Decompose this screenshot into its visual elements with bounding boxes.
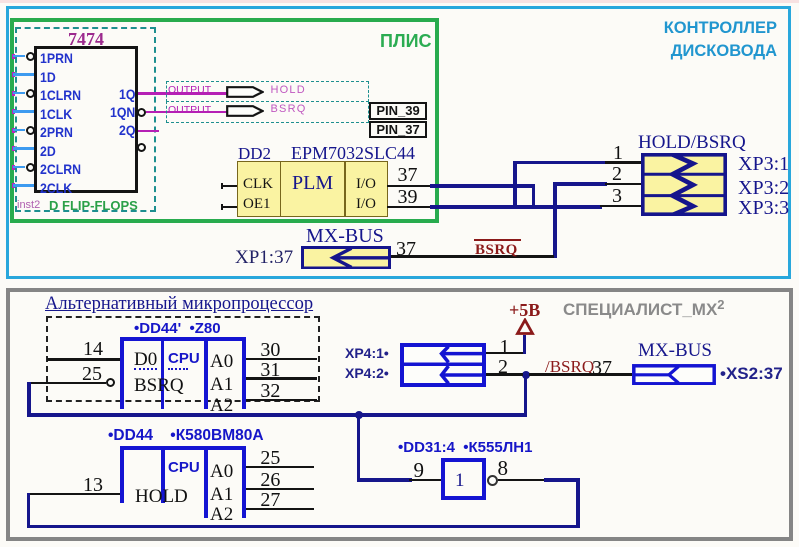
pin 1PRN bubble <box>26 52 35 61</box>
wire 14 <box>47 358 120 361</box>
pin 1CLK label <box>40 107 72 121</box>
label XP3:3 <box>738 198 789 218</box>
label DD44' Z80 <box>134 321 221 336</box>
wire bus y526.5 <box>27 525 580 529</box>
label BSRQ overline <box>474 239 521 241</box>
U Z80 body (open bottom) <box>120 337 246 341</box>
label Альтернативный микропроцессор <box>45 295 313 314</box>
label 7474 <box>68 30 104 48</box>
pin 2CLRN label <box>40 162 81 176</box>
label 39 (PLM out) <box>398 187 418 207</box>
controller box (cyan) <box>6 6 791 279</box>
U K580 body (open bottom) <box>120 446 246 450</box>
pin 1QN <box>110 105 135 119</box>
label MX-BUS (top) <box>306 226 384 246</box>
pin A0 <box>210 462 233 481</box>
label 13 <box>83 475 103 495</box>
pin 1CLK wire <box>12 109 15 114</box>
dff dashed container <box>15 27 156 212</box>
stub CLK <box>222 185 237 188</box>
label BSRQ (red) <box>475 243 518 258</box>
label inst2 <box>17 200 40 211</box>
label 2 <box>612 164 622 184</box>
wire vertical x515 <box>513 161 517 208</box>
wire drop x578 <box>576 478 580 528</box>
wire 2Q stub (magenta) <box>138 130 159 132</box>
label XP1:37 <box>235 248 293 267</box>
power triangle <box>515 318 535 336</box>
pin OE1 <box>243 197 271 212</box>
wire xp4 row1 black <box>486 352 523 355</box>
label 30 <box>260 340 280 360</box>
wire 1QN (magenta) <box>146 111 228 114</box>
wire vertical x533.5 <box>532 184 536 208</box>
label КОНТРОЛЛЕР ДИСКОВОДА <box>560 17 777 63</box>
pin 1CLRN wire <box>12 91 15 96</box>
pin A2 <box>210 505 233 524</box>
wire 32 <box>246 399 318 402</box>
label PLM <box>292 173 333 193</box>
pin I/O 2 <box>356 197 376 212</box>
label 31 <box>260 360 280 380</box>
pin 1PRN wire <box>12 54 15 59</box>
PLM U DD2 body <box>237 161 388 217</box>
label 27 <box>260 490 280 510</box>
wire gate output navy <box>544 478 580 482</box>
pin 1CLRN bubble <box>26 89 35 98</box>
junction dot (358.5,415) <box>355 411 363 419</box>
label DD44 К580ВМ80А <box>108 428 264 444</box>
wire 1Q (magenta) <box>138 92 228 95</box>
label 25 (K580 out) <box>260 448 280 468</box>
wire 37 navy <box>430 184 535 188</box>
pin HOLD <box>135 487 188 506</box>
label 9 <box>414 460 425 481</box>
label /BSRQ <box>545 358 594 375</box>
pin 1PRN label <box>40 51 73 65</box>
pin 2Q <box>119 123 135 137</box>
wire bus y415 <box>27 413 527 417</box>
label D FLIP-FLOPS <box>49 199 138 212</box>
scan edge strip <box>0 0 799 3</box>
wire 26 <box>246 488 315 491</box>
stub OE1 <box>222 206 237 209</box>
bubble 1QN <box>137 108 146 117</box>
wire 25 <box>31 382 106 385</box>
wire gate input black <box>409 479 441 482</box>
left pins group (wires/ticks/bubbles) <box>0 0 799 1</box>
pin 1Q <box>119 87 135 101</box>
pin BSRQ <box>134 376 184 395</box>
label XS2:37 <box>720 365 783 382</box>
label HOLD/BSRQ <box>638 133 746 152</box>
pin A1 <box>210 375 233 394</box>
pin 2PRN wire <box>12 128 15 133</box>
wire gate input navy <box>357 478 412 482</box>
label XP4:2 <box>345 366 389 380</box>
label MX-BUS (bottom) <box>638 341 712 360</box>
label EPM7032SLC44 <box>291 144 415 162</box>
connector XP3 (yellow, 3 arrows) <box>641 153 727 216</box>
OUTPUT symbol row2 (BSRQ) <box>166 101 369 123</box>
label DD31:4 К555ЛН1 <box>398 440 532 455</box>
wire net3 horiz y205.8 <box>600 205 641 208</box>
pin 2D label <box>40 144 56 158</box>
wire vertical x555 (BSRQ riser) <box>553 182 557 258</box>
wire 30 <box>246 358 318 361</box>
dashed box Z80 <box>46 316 320 402</box>
pin 1D wire <box>12 72 15 77</box>
pin box PIN_37 <box>369 121 427 138</box>
connector XS2:37 (left arrow) <box>632 364 716 386</box>
gate output bubble <box>487 475 498 486</box>
pin 1D label <box>40 70 56 84</box>
wire 13 <box>29 493 120 496</box>
pin A0 <box>210 352 233 371</box>
pin 2D wire <box>12 146 15 151</box>
label DD2 <box>238 145 271 162</box>
label 37 (PLM out) <box>398 165 418 185</box>
label 3 <box>612 186 622 206</box>
label 25 (Z80 in) <box>82 364 102 384</box>
wire xp4 row2 black <box>486 373 523 376</box>
pin 2CLRN bubble <box>26 163 35 172</box>
specialist box (gray) <box>6 288 793 541</box>
pin 2CLRN wire <box>12 165 15 170</box>
label 2 (xp4) <box>498 357 508 377</box>
label 26 <box>260 470 280 490</box>
PLIS box (green) <box>10 18 439 223</box>
pin I/O 1 <box>356 177 376 192</box>
bubble BSRQ <box>106 378 115 387</box>
pin 2PRN bubble <box>26 126 35 135</box>
junction dot (525.5,374.5) <box>522 371 530 379</box>
pin box PIN_39 <box>369 102 427 120</box>
label XP3:2 <box>738 178 789 198</box>
label XP3:1 <box>738 154 789 174</box>
pin D0 <box>134 350 157 369</box>
lone bubble <box>137 143 146 152</box>
label 1 (xp4) <box>500 337 510 357</box>
wire riser to +5V <box>523 335 527 354</box>
label ПЛИС <box>380 32 432 50</box>
wire net1 horiz y162 <box>515 161 607 165</box>
wire XP1 to riser (black) <box>391 255 554 258</box>
pin CLK <box>243 177 273 192</box>
label 37 (xs2 wire) <box>592 358 612 378</box>
wire riser left x28.5 (HOLD) <box>27 493 31 529</box>
label 1 <box>613 143 623 163</box>
pin 1CLRN label <box>40 88 81 102</box>
pin A2 <box>210 396 233 415</box>
wire 39 black <box>387 206 432 209</box>
label 8 <box>498 458 509 479</box>
label XP4:1 <box>345 346 389 360</box>
wire to XS2 black <box>529 373 632 376</box>
pin 2CLK label <box>40 181 72 195</box>
OUTPUT symbol row1 (HOLD) <box>166 81 369 102</box>
pin 2PRN label <box>40 125 73 139</box>
wire 39 navy <box>430 205 602 209</box>
wire net2 horiz y183.5 <box>555 182 607 186</box>
label СПЕЦИАЛИСТ_МХ2 <box>563 301 725 318</box>
wire 31 <box>246 377 318 380</box>
gate DD31:4 (inverter) <box>441 458 486 500</box>
connector XP1:37 (yellow, left arrow) <box>301 246 391 270</box>
label 32 <box>260 381 280 401</box>
wire gate output black <box>498 479 547 482</box>
connector XP4 (2 rows, left arrows) <box>400 343 486 387</box>
flip-flop U 7474 body <box>34 46 138 193</box>
label CPU <box>168 460 200 475</box>
power +5В <box>509 301 540 319</box>
wire 37 black <box>387 185 432 188</box>
wire 25 <box>246 466 315 469</box>
label 14 <box>83 339 103 359</box>
pin 2CLK wire <box>12 183 15 188</box>
wire drop x358.5 <box>357 415 361 482</box>
label 37 (mx-bus wire) <box>396 239 416 259</box>
label 1 (gate) <box>455 471 465 490</box>
label CPU <box>168 351 200 366</box>
pin A1 <box>210 485 233 504</box>
wire 27 <box>246 508 315 511</box>
wire riser left x29 (BSRQ) <box>27 382 31 417</box>
wire drop x525.5 <box>524 375 528 417</box>
